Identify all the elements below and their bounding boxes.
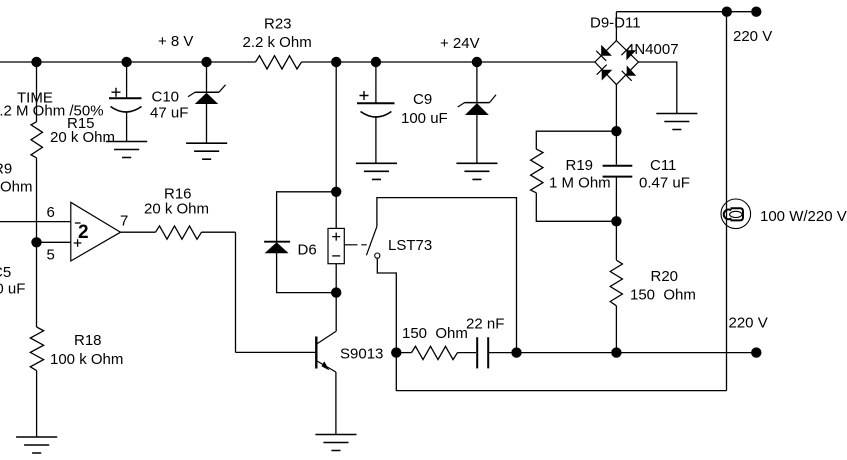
svg-text:2.2 k Ohm: 2.2 k Ohm bbox=[243, 34, 312, 51]
wire C11 to node bbox=[615, 178, 617, 222]
wire corner down bbox=[235, 232, 237, 352]
wire node down to R18 bbox=[36, 242, 38, 327]
svg-text:220 V: 220 V bbox=[733, 28, 772, 45]
bridge diode bottom-left bbox=[602, 70, 613, 81]
ground bridge right bbox=[656, 114, 697, 130]
relay dashed actuation link bbox=[344, 244, 352, 246]
wire lamp vertical bbox=[726, 12, 728, 391]
svg-text:47 uF: 47 uF bbox=[150, 105, 188, 122]
svg-text:100 W/220 V: 100 W/220 V bbox=[760, 208, 847, 225]
svg-text:C10: C10 bbox=[152, 89, 180, 106]
wire R16 to corner bbox=[202, 231, 236, 233]
capacitor C11 0.47uF plates bbox=[603, 166, 633, 177]
resistor R19 1M bbox=[531, 149, 543, 193]
bridge rectifier D9-D11 4N4007 bbox=[595, 41, 639, 85]
diode D6 bbox=[264, 241, 290, 243]
node 220V bottom terminal bbox=[751, 347, 761, 357]
node zener D8 rail bbox=[472, 57, 482, 67]
svg-text:150 Ohm: 150 Ohm bbox=[402, 325, 468, 342]
svg-text:LST73: LST73 bbox=[388, 237, 432, 254]
svg-text:4N4007: 4N4007 bbox=[626, 41, 679, 58]
svg-text:10 uF: 10 uF bbox=[0, 281, 25, 298]
resistor 150 Ohm snubber bbox=[412, 346, 458, 359]
node base network bbox=[391, 347, 401, 357]
wire 150 Ohm to 22nF cap bbox=[458, 352, 477, 354]
node relay top bbox=[331, 187, 341, 197]
CAPACITORS bbox=[109, 88, 632, 369]
ground under R18 bbox=[16, 437, 57, 453]
ground under C9 bbox=[356, 163, 397, 179]
wire node to 150 Ohm resistor bbox=[396, 352, 411, 354]
svg-text:1 M Ohm: 1 M Ohm bbox=[549, 175, 611, 192]
wire bridge right to ground bbox=[638, 62, 676, 114]
svg-text:D6: D6 bbox=[298, 242, 317, 259]
wire zener D7 branch bbox=[206, 62, 208, 92]
wire C9 arc to ground bbox=[375, 117, 377, 164]
node 220V top terminal bbox=[751, 7, 761, 17]
capacitor C10 47uF plates bbox=[109, 97, 142, 99]
svg-text:22 nF: 22 nF bbox=[466, 316, 504, 333]
relay switch blade bbox=[366, 227, 377, 256]
op-amp U2 bbox=[71, 202, 121, 261]
wire D6 bottom branch bbox=[277, 253, 337, 293]
wire node to C11 bbox=[615, 131, 617, 165]
wire switch bottom contact to node bbox=[377, 258, 396, 352]
node R20 bottom bbox=[611, 347, 621, 357]
wire node to collector bbox=[335, 293, 337, 332]
svg-text:2: 2 bbox=[78, 222, 89, 243]
wire C10 arc to ground bbox=[126, 112, 128, 142]
wire op-amp pin6 input from left edge bbox=[0, 221, 71, 223]
node bridge output bbox=[611, 126, 621, 136]
relay switch contact bbox=[375, 253, 380, 258]
svg-text:20 k Ohm: 20 k Ohm bbox=[50, 129, 115, 146]
wire R19 bottom branch bbox=[536, 193, 616, 222]
DIODES bbox=[188, 85, 496, 253]
node zener D7 rail bbox=[201, 57, 211, 67]
wire R19 top branch bbox=[536, 131, 616, 149]
resistor R20 150 bbox=[610, 260, 622, 306]
svg-text:D9-D11: D9-D11 bbox=[590, 15, 641, 32]
wire +24V rail right of R23 to bridge left vertex bbox=[302, 61, 595, 63]
wire +8V rail left segment bbox=[0, 61, 256, 63]
svg-text:C11: C11 bbox=[650, 157, 676, 174]
node R19 C11 bottom bbox=[611, 216, 621, 226]
svg-text:0.47 uF: 0.47 uF bbox=[639, 175, 690, 192]
node relay bottom bbox=[331, 287, 341, 297]
svg-text:R18: R18 bbox=[74, 332, 102, 349]
transistor Q1 S9013 bbox=[316, 331, 336, 372]
svg-text:R20: R20 bbox=[651, 268, 679, 285]
wire 22nF cap to 220V terminal bbox=[489, 352, 756, 354]
wire switch top terminal bbox=[377, 198, 517, 353]
svg-text:150 Ohm: 150 Ohm bbox=[630, 287, 696, 304]
resistor R15 20k TIME bbox=[31, 122, 43, 158]
wire R15 bottom down to node at pin5 bbox=[36, 158, 38, 243]
ground under transistor bbox=[315, 435, 356, 451]
zener diode at +8V rail bbox=[195, 91, 219, 93]
svg-text:100 uF: 100 uF bbox=[401, 110, 448, 127]
wire to transistor base bbox=[236, 351, 316, 353]
node relay branch rail bbox=[331, 57, 341, 67]
node op-amp pin5 bbox=[31, 237, 41, 247]
svg-text:6: 6 bbox=[47, 204, 55, 221]
wire R20 to bottom rail bbox=[615, 306, 617, 353]
bridge diode top-right bbox=[626, 50, 636, 60]
svg-text:R9: R9 bbox=[0, 161, 12, 178]
wire TIME branch down to R15 bbox=[36, 62, 38, 122]
resistor R23 2.2k bbox=[256, 56, 302, 69]
wire C9 branch bbox=[375, 62, 377, 103]
svg-text:5: 5 bbox=[47, 247, 55, 264]
wire lower loop to lamp bbox=[396, 353, 726, 391]
resistor R18 100k bbox=[30, 327, 43, 371]
capacitor C9 100uF plates bbox=[357, 102, 395, 104]
wire zener D7 to ground bbox=[206, 104, 208, 144]
node 220V top left bbox=[722, 7, 732, 17]
svg-text:+ 8 V: + 8 V bbox=[158, 33, 193, 50]
lamp 100W/220V bbox=[721, 199, 751, 229]
svg-text:+ 24V: + 24V bbox=[440, 35, 480, 52]
node C10 rail bbox=[121, 57, 131, 67]
wire op-amp pin5 input from node bbox=[37, 241, 71, 243]
wire coil bottom to node bbox=[335, 264, 337, 293]
svg-text:C5: C5 bbox=[0, 264, 11, 281]
wire 220V top line bbox=[616, 11, 756, 13]
capacitor 22nF plates bbox=[477, 337, 488, 368]
node C9 rail bbox=[371, 57, 381, 67]
svg-text:20 k Ohm: 20 k Ohm bbox=[144, 201, 209, 218]
bridge diode top-left bbox=[601, 45, 612, 56]
wire R18 bottom to ground bbox=[36, 371, 38, 437]
ground under zener D7 bbox=[186, 143, 227, 159]
wire C10 branch bbox=[126, 62, 128, 98]
wire relay node to coil bbox=[335, 192, 337, 229]
svg-text:R23: R23 bbox=[264, 16, 292, 33]
wire D6 top branch bbox=[277, 192, 337, 242]
node switch feed bbox=[511, 347, 521, 357]
wire zener D8 branch bbox=[476, 62, 478, 102]
wire op-amp output to R16 bbox=[121, 231, 156, 233]
svg-text:C9: C9 bbox=[413, 91, 432, 108]
ground under zener D8 bbox=[456, 163, 497, 179]
bridge diode bottom-right bbox=[627, 65, 637, 75]
svg-text:100 k Ohm: 100 k Ohm bbox=[50, 351, 123, 368]
wire zener D8 to ground bbox=[476, 115, 478, 163]
wire relay branch from rail bbox=[335, 62, 337, 192]
zener diode at +24V rail bbox=[465, 102, 490, 104]
node TIME rail bbox=[31, 57, 41, 67]
svg-text:Ohm: Ohm bbox=[0, 179, 33, 196]
svg-text:R19: R19 bbox=[566, 157, 594, 174]
GROUND SYMBOLS bbox=[16, 114, 697, 454]
wire node to R20 bbox=[615, 221, 617, 260]
wire bridge top bbox=[615, 12, 617, 41]
wire bridge bottom to node bbox=[615, 85, 617, 132]
wire emitter to ground bbox=[335, 372, 337, 435]
relay coil LST73 bbox=[328, 227, 380, 264]
svg-text:S9013: S9013 bbox=[340, 346, 383, 363]
svg-text:220 V: 220 V bbox=[729, 315, 768, 332]
svg-text:7: 7 bbox=[120, 213, 128, 230]
RESISTORS bbox=[30, 56, 622, 371]
resistor R16 20k bbox=[156, 226, 202, 239]
ground under C10 bbox=[106, 142, 147, 158]
